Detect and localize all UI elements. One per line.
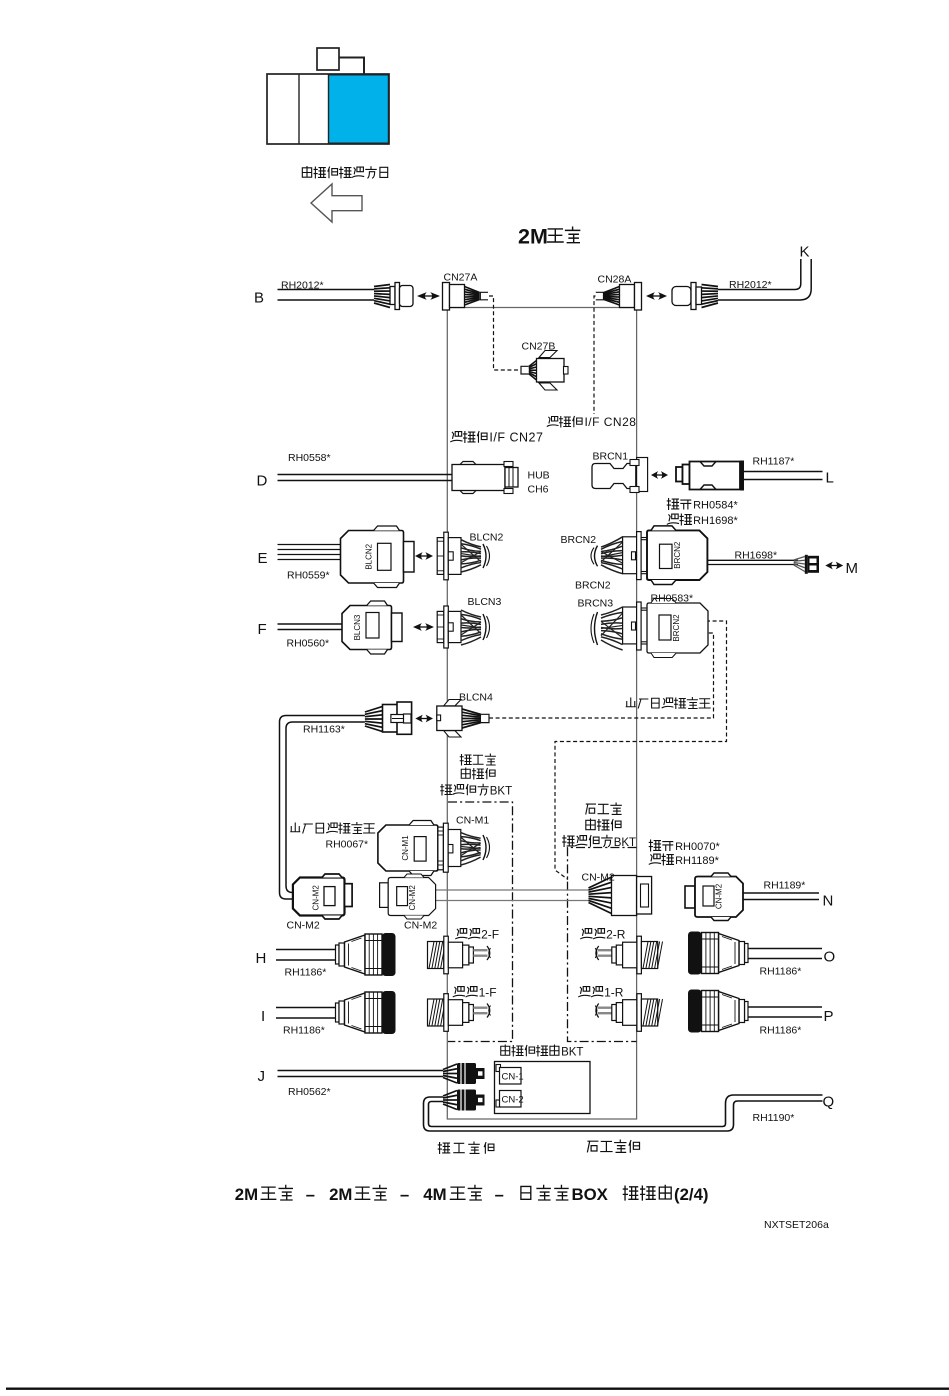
svg-text:BKT: BKT (561, 1047, 583, 1059)
svg-text:1-F: 1-F (479, 986, 497, 1000)
svg-text:CN-2: CN-2 (502, 1095, 524, 1106)
svg-text:E: E (258, 550, 268, 567)
svg-text:BRCN3: BRCN3 (578, 598, 614, 610)
svg-text:BLCN4: BLCN4 (459, 692, 493, 704)
svg-text:H: H (256, 950, 267, 967)
svg-text:2M: 2M (329, 1185, 352, 1204)
svg-text:RH0562*: RH0562* (288, 1086, 331, 1098)
svg-text:BLCN3: BLCN3 (353, 614, 362, 640)
svg-text:RH1187*: RH1187* (753, 456, 795, 468)
svg-text:O: O (824, 949, 836, 966)
svg-text:CN-M1: CN-M1 (401, 835, 410, 861)
svg-text:RH1186*: RH1186* (760, 1025, 802, 1037)
svg-text:BRCN2: BRCN2 (673, 541, 682, 569)
svg-text:RH0070*: RH0070* (675, 841, 720, 853)
svg-text:HUB: HUB (528, 470, 550, 482)
svg-text:–: – (495, 1186, 504, 1204)
svg-text:I: I (261, 1008, 265, 1025)
svg-text:1-R: 1-R (604, 986, 624, 1000)
svg-text:CN-M2: CN-M2 (287, 920, 320, 932)
svg-text:RH1189*: RH1189* (764, 880, 806, 892)
svg-text:RH1698*: RH1698* (735, 550, 778, 562)
svg-text:L: L (826, 470, 834, 487)
svg-text:CN28A: CN28A (598, 274, 632, 286)
svg-text:BRCN2: BRCN2 (672, 614, 681, 642)
svg-text:CN-M2: CN-M2 (715, 883, 724, 909)
svg-text:RH1186*: RH1186* (283, 1025, 325, 1037)
svg-text:Q: Q (823, 1094, 835, 1111)
svg-text:CN-M2: CN-M2 (404, 920, 437, 932)
svg-text:K: K (800, 244, 810, 261)
svg-text:BRCN2: BRCN2 (561, 534, 597, 546)
svg-text:RH2012*: RH2012* (729, 279, 772, 291)
svg-text:RH1186*: RH1186* (760, 966, 802, 978)
svg-text:2M: 2M (518, 225, 548, 249)
svg-text:CN27A: CN27A (444, 272, 478, 284)
svg-text:RH0584*: RH0584* (693, 500, 738, 512)
svg-text:B: B (254, 290, 264, 307)
svg-text:D: D (257, 473, 268, 490)
svg-text:RH0560*: RH0560* (287, 638, 330, 650)
svg-text:4M: 4M (423, 1185, 446, 1204)
svg-text:M: M (846, 560, 859, 577)
svg-text:BRCN1: BRCN1 (593, 451, 629, 463)
svg-text:P: P (824, 1008, 834, 1025)
svg-text:F: F (258, 621, 267, 638)
svg-text:BLCN2: BLCN2 (470, 532, 504, 544)
svg-text:BKT: BKT (614, 837, 636, 849)
svg-text:BOX: BOX (572, 1185, 609, 1204)
svg-text:(2/4): (2/4) (674, 1185, 709, 1204)
svg-text:I/F CN27: I/F CN27 (489, 431, 543, 445)
svg-text:–: – (400, 1186, 409, 1204)
svg-text:2-R: 2-R (606, 928, 626, 942)
svg-text:J: J (258, 1068, 266, 1085)
svg-text:I/F CN28: I/F CN28 (584, 415, 636, 429)
svg-text:BLCN3: BLCN3 (468, 596, 502, 608)
svg-text:RH0583*: RH0583* (651, 593, 694, 605)
svg-text:N: N (823, 893, 834, 910)
svg-text:BRCN2: BRCN2 (575, 580, 611, 592)
svg-text:RH0558*: RH0558* (288, 452, 331, 464)
svg-text:RH1163*: RH1163* (303, 724, 345, 736)
svg-text:CN-M1: CN-M1 (456, 815, 489, 827)
svg-text:RH0067*: RH0067* (326, 839, 369, 851)
svg-text:CN-M2: CN-M2 (582, 872, 615, 884)
svg-text:CN-M2: CN-M2 (311, 885, 320, 911)
svg-text:RH1190*: RH1190* (753, 1112, 795, 1124)
svg-text:NXTSET206a: NXTSET206a (764, 1219, 829, 1231)
svg-text:2-F: 2-F (481, 928, 499, 942)
svg-text:RH0559*: RH0559* (287, 570, 330, 582)
svg-text:RH1186*: RH1186* (285, 967, 327, 979)
svg-text:RH1698*: RH1698* (693, 515, 738, 527)
svg-text:RH1189*: RH1189* (675, 855, 720, 867)
svg-text:CN-1: CN-1 (502, 1072, 524, 1083)
svg-text:BKT: BKT (490, 786, 512, 798)
svg-text:CH6: CH6 (528, 484, 549, 496)
svg-text:BLCN2: BLCN2 (365, 543, 374, 569)
svg-text:CN-M2: CN-M2 (408, 885, 417, 911)
svg-text:2M: 2M (235, 1185, 258, 1204)
svg-text:–: – (306, 1186, 315, 1204)
